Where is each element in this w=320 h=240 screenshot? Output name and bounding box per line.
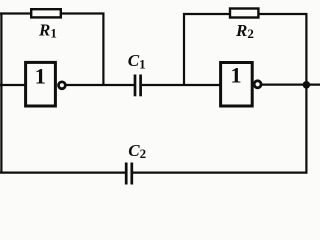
wire right vertical bus (R2 to output node to bottom) <box>305 13 307 173</box>
capacitor C1 <box>135 75 141 97</box>
wire C1 to gate2 input <box>142 84 220 86</box>
wire gate2 output to right edge <box>262 83 320 85</box>
wire R1 to corner <box>61 12 105 14</box>
inversion bubble U2 <box>254 81 261 88</box>
capacitor C2 <box>126 163 132 185</box>
svg-text:1: 1 <box>35 64 46 89</box>
wire bottom left (to C2) <box>0 172 126 174</box>
wire gate1 input <box>0 84 25 86</box>
junction dot output node <box>303 81 311 89</box>
svg-text:1: 1 <box>230 63 241 88</box>
wire R2 top right <box>258 13 307 15</box>
wire bottom right (C2 to right bus) <box>133 172 308 174</box>
wire left vertical bus (node A) <box>0 13 2 174</box>
inverter gate U1 body <box>26 62 56 106</box>
inversion bubble U1 <box>59 82 66 89</box>
wire feedback vertical (R1 to gate1 output) <box>102 13 104 87</box>
resistor R2 <box>230 9 258 18</box>
wire R2 top left <box>183 13 230 15</box>
wire top-left to R1 <box>0 12 31 14</box>
wire R2 left vertical <box>183 13 185 86</box>
wire gate1 output to C1 <box>66 84 135 86</box>
resistor R1 <box>31 9 61 17</box>
inverter gate U2 body <box>221 63 253 107</box>
